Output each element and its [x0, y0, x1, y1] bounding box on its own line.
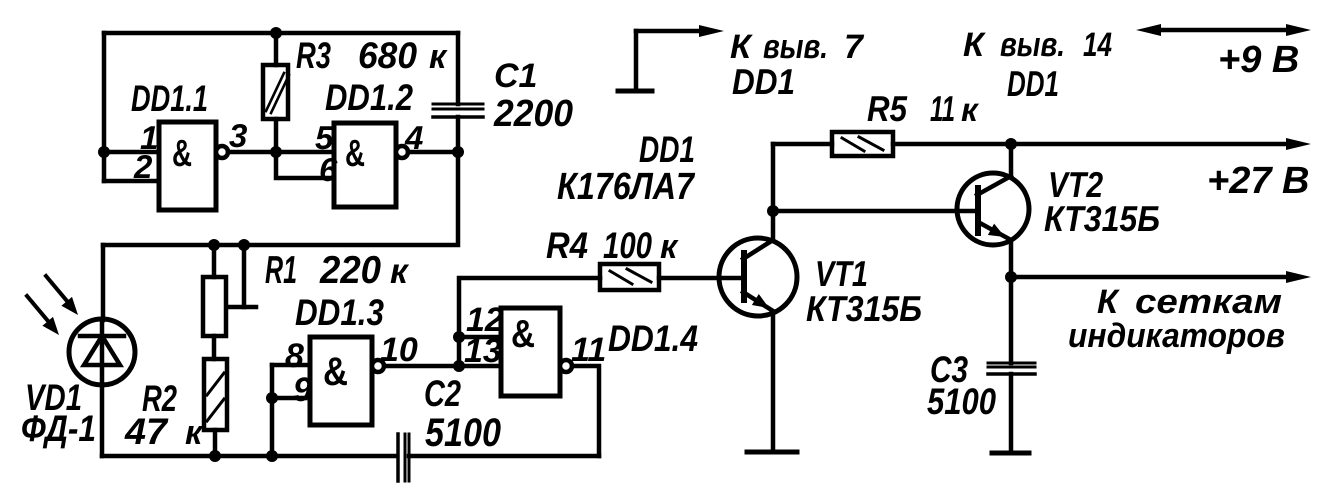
svg-text:7: 7	[844, 28, 865, 66]
svg-text:DD1.4: DD1.4	[608, 318, 698, 359]
resistor R3	[274, 33, 279, 65]
svg-text:C2: C2	[424, 373, 461, 414]
node DD1.3 bottom	[266, 450, 278, 462]
ground C3	[992, 451, 1029, 456]
svg-text:2200: 2200	[493, 93, 573, 135]
node junction pin1	[98, 146, 110, 158]
node R1 tap	[238, 239, 250, 251]
svg-text:5100: 5100	[425, 411, 501, 455]
svg-text:47: 47	[124, 411, 169, 452]
svg-text:11: 11	[930, 88, 955, 129]
wire VD1 down	[100, 385, 105, 456]
svg-text:КТ315Б: КТ315Б	[806, 288, 922, 329]
wire R1 trimmer tap	[242, 245, 247, 307]
svg-text:680: 680	[358, 35, 417, 76]
node R3 bottom	[270, 146, 282, 158]
svg-text:выв.: выв.	[1000, 26, 1065, 64]
wire VT2 collector up	[1009, 144, 1014, 176]
svg-text:к: к	[185, 414, 204, 452]
svg-text:DD1: DD1	[1007, 63, 1059, 104]
svg-text:ФД-1: ФД-1	[21, 408, 96, 449]
wire pin4 down to middle bus	[103, 152, 458, 245]
wire R4 left and DD1.4 input vertical	[459, 278, 600, 366]
resistor R4	[600, 264, 659, 290]
resistor R2	[204, 359, 227, 430]
gate DD1.4	[501, 308, 560, 396]
wire DD1.3 pin 9	[272, 396, 310, 401]
svg-text:3: 3	[229, 117, 247, 154]
node R3 top	[270, 27, 282, 39]
svg-text:&: &	[172, 133, 192, 175]
svg-text:8: 8	[285, 337, 304, 375]
svg-text:R5: R5	[867, 88, 908, 129]
node VT2 emitter	[1005, 271, 1017, 283]
capacitor C1	[456, 33, 461, 104]
svg-text:к: к	[660, 228, 679, 266]
svg-text:&: &	[511, 313, 535, 356]
gate DD1.3	[310, 337, 372, 425]
bubble DD1.4 output	[560, 360, 572, 372]
node R5 VT2 collector	[1005, 138, 1017, 150]
svg-text:К176ЛА7: К176ЛА7	[557, 166, 696, 208]
svg-text:6: 6	[319, 151, 338, 188]
svg-text:DD1: DD1	[639, 129, 695, 170]
photodiode VD1	[69, 319, 135, 385]
wire bottom bus right	[409, 454, 599, 459]
wire middle bus to VD1	[101, 245, 106, 320]
wire +9 rail double arrow	[1152, 28, 1294, 33]
bubble DD1.2 output	[396, 146, 408, 158]
wire DD1.2 pin 6 drop	[276, 152, 334, 178]
svg-text:+27 В: +27 В	[1207, 160, 1309, 202]
svg-text:к: к	[390, 252, 410, 291]
svg-text:R3: R3	[296, 35, 331, 76]
svg-text:&: &	[345, 133, 365, 175]
svg-text:DD1.2: DD1.2	[325, 77, 413, 118]
bubble DD1.3 output	[372, 360, 384, 372]
svg-text:+9 В: +9 В	[1218, 39, 1299, 81]
wire DD1.1 pin 1	[104, 150, 159, 155]
svg-text:КТ315Б: КТ315Б	[1044, 198, 1160, 239]
svg-text:индикаторов: индикаторов	[1068, 317, 1285, 355]
svg-text:&: &	[323, 350, 348, 394]
wire VT2 emitter down	[1009, 240, 1014, 277]
svg-text:R1: R1	[265, 249, 297, 292]
wire DD1.3 out to DD1.4 pin 13	[384, 364, 501, 369]
svg-text:4: 4	[404, 119, 423, 156]
wire DD1.4 out down to bus	[572, 366, 599, 456]
wire VT1 emitter down	[771, 313, 776, 451]
svg-text:5100: 5100	[927, 381, 996, 422]
svg-text:DD1: DD1	[732, 61, 795, 102]
wire DD1.2 out	[408, 150, 458, 155]
node R2 bottom	[209, 450, 221, 462]
transistor VT1	[719, 238, 797, 316]
svg-text:DD1.3: DD1.3	[295, 292, 384, 333]
wire bottom bus left	[102, 454, 396, 459]
wire VT1 collector up	[771, 144, 776, 240]
wire R5 left	[773, 142, 832, 147]
arrowhead pin 7	[699, 25, 724, 37]
wire DD1.3 pin 8	[272, 363, 310, 368]
gate DD1.2	[334, 123, 396, 207]
node R1 top	[208, 239, 220, 251]
light arrow 2	[27, 296, 48, 321]
gate DD1.1	[159, 122, 216, 210]
svg-text:2: 2	[133, 148, 153, 185]
node pin4 C1	[452, 146, 464, 158]
svg-text:К: К	[963, 26, 986, 64]
wire DD1.1 out to DD1.2	[228, 150, 334, 155]
svg-text:сеткам: сеткам	[1135, 283, 1282, 321]
arrowhead +9 right	[1286, 24, 1311, 36]
svg-text:100: 100	[603, 225, 652, 266]
resistor R1	[212, 245, 217, 277]
svg-text:К: К	[1097, 283, 1120, 321]
svg-text:13: 13	[464, 332, 502, 370]
svg-text:10: 10	[380, 331, 418, 369]
arrowhead +9 left	[1136, 24, 1161, 36]
svg-text:9: 9	[293, 371, 312, 409]
wire to indicator grids	[1011, 275, 1294, 280]
transistor VT2	[957, 173, 1029, 245]
wire DD1.4 pin 12	[459, 335, 501, 340]
wire R5 right to +27 rail	[893, 142, 1294, 147]
node pin13	[453, 360, 465, 372]
svg-text:11: 11	[571, 331, 606, 369]
svg-text:C1: C1	[494, 57, 537, 95]
node VT1 collector to VT2 base	[767, 205, 779, 217]
svg-text:к: к	[429, 38, 448, 76]
wire to pin 7 arrow	[636, 29, 703, 34]
ground VT1 emitter	[747, 450, 797, 455]
svg-text:R4: R4	[546, 225, 588, 266]
resistor R5	[832, 132, 893, 156]
arrowhead +27	[1286, 138, 1311, 150]
wire DD1.3 input vertical	[270, 365, 275, 456]
wire VT2 base	[773, 209, 977, 214]
svg-text:к: к	[961, 91, 980, 128]
wire DD1.1 pin 2	[104, 179, 159, 184]
wire R4 to VT1 base	[659, 276, 744, 281]
light arrow 1	[46, 276, 67, 301]
svg-text:DD1.1: DD1.1	[131, 78, 208, 119]
ground symbol pin 7	[618, 89, 652, 94]
svg-text:220: 220	[319, 249, 381, 292]
bubble DD1.1 output	[216, 146, 228, 158]
arrowhead grids	[1286, 271, 1311, 283]
capacitor C2	[396, 434, 400, 481]
node pin12	[453, 331, 465, 343]
capacitor C3	[1009, 277, 1014, 363]
node pin9	[266, 392, 278, 404]
svg-text:14: 14	[1083, 26, 1112, 64]
wire top bus	[104, 31, 458, 36]
wire left vertical	[102, 33, 107, 181]
